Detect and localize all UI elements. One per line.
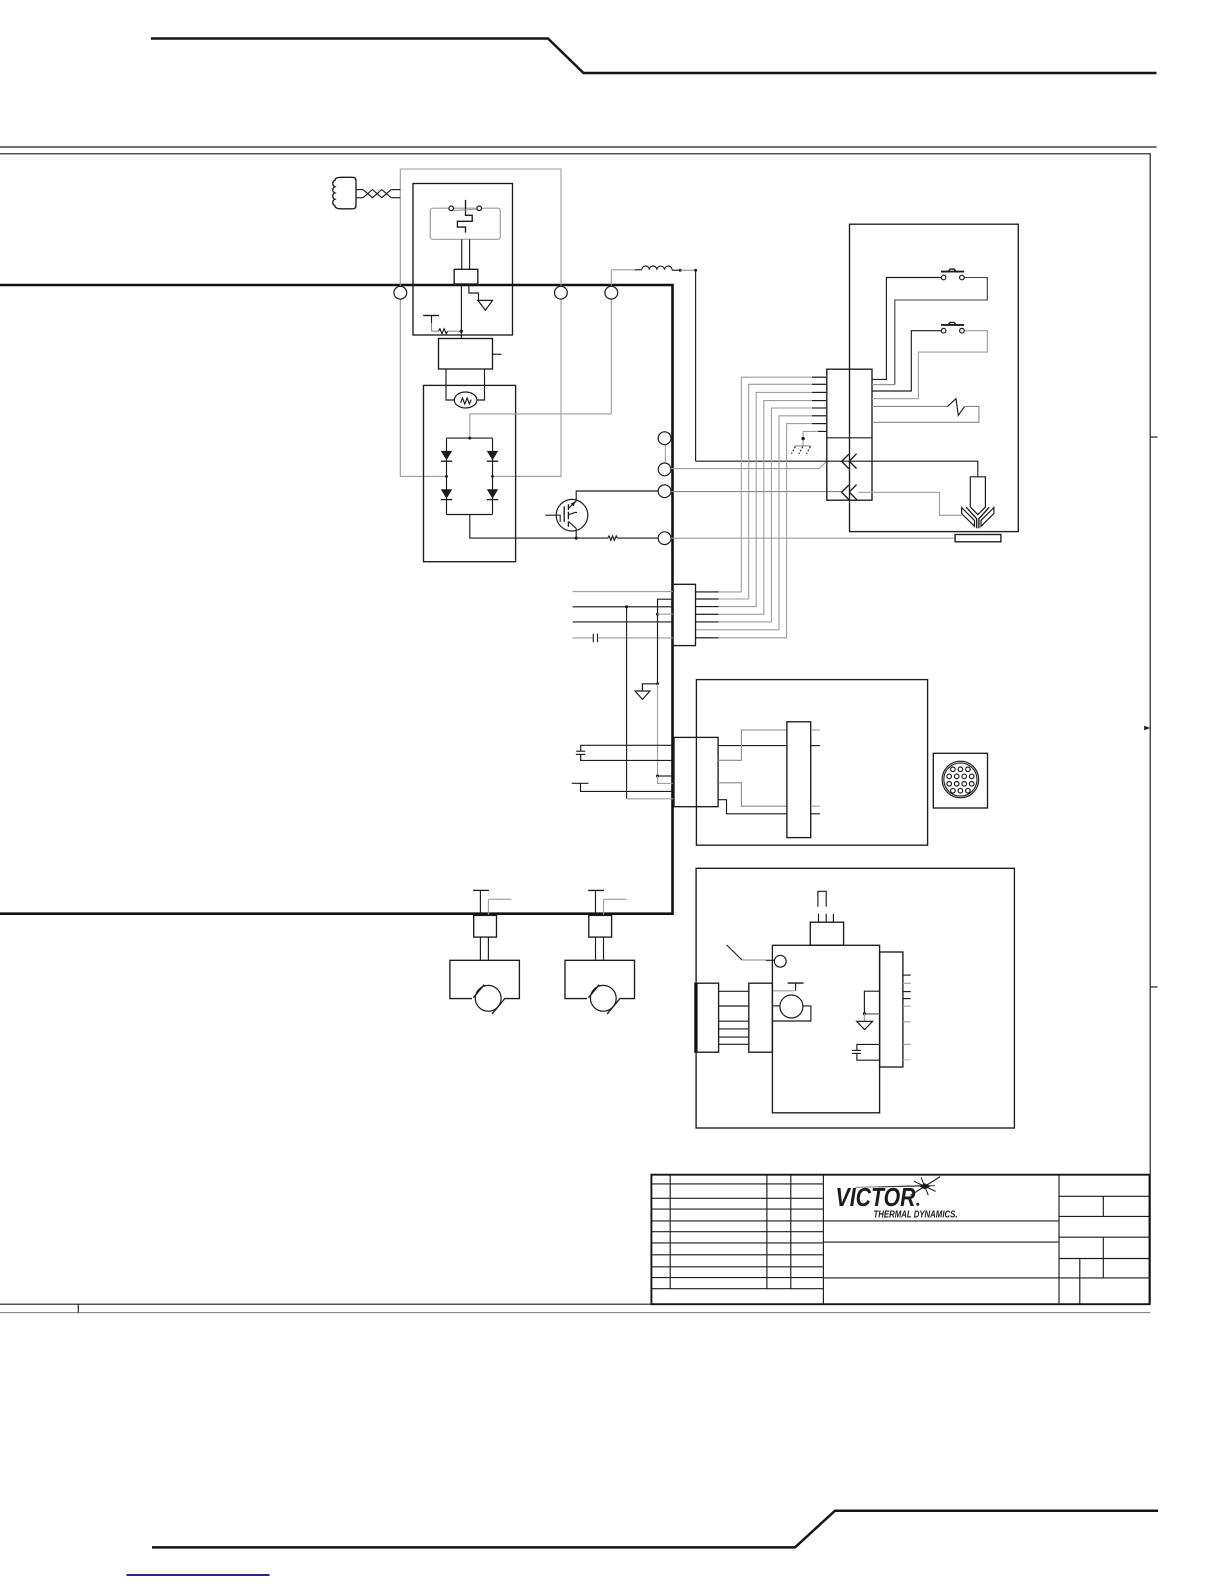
- torch connector block: [827, 369, 872, 500]
- rectifier box: [424, 385, 516, 561]
- drawing border bottom second line: [0, 1312, 1150, 1314]
- primary connector: [674, 737, 718, 806]
- pcb wire D with capacitor C1: [573, 634, 673, 643]
- harness stubs at connector: [696, 592, 719, 638]
- fan FN2: [565, 890, 635, 1014]
- harness wire 5: [696, 408, 827, 622]
- wire through node N3: [610, 270, 612, 414]
- bridge rectifier BR1: [441, 437, 498, 515]
- harness wire 7: [696, 424, 827, 638]
- diode D2: [487, 451, 498, 461]
- node N1: [394, 286, 407, 299]
- torch switch SW2: [872, 322, 987, 398]
- tip wire: [858, 492, 962, 515]
- Victor logo: [836, 1177, 958, 1221]
- CB1 blade: [454, 209, 477, 210]
- work lead: [671, 537, 955, 539]
- manifold pins: [903, 975, 911, 1060]
- solenoid ground: [857, 991, 880, 1029]
- bridge AC feed: [470, 414, 612, 438]
- electrode sense wire: [671, 491, 842, 494]
- pump motor M1: [772, 995, 811, 1021]
- bottom trim line: [152, 1511, 1158, 1548]
- control PCB box: [439, 339, 502, 370]
- harness black stubs at block: [812, 377, 827, 423]
- primary capacitor C2 loop: [576, 745, 674, 760]
- circuit breaker CB1 module box: [413, 184, 513, 336]
- aux ground wire: [642, 599, 672, 691]
- drawing border bottom line: [0, 1303, 1150, 1305]
- harness wire 6: [696, 416, 827, 630]
- solenoid coil connector: [818, 891, 834, 922]
- diode D1: [441, 451, 452, 461]
- port circle: [774, 955, 786, 967]
- wire CB1 to control PCB: [460, 284, 462, 339]
- leads PCB to lamp: [446, 369, 485, 400]
- gas solenoid body: [772, 945, 879, 1113]
- svg-text:VICTOR: VICTOR: [836, 1184, 916, 1212]
- aux wire to transformer: [656, 684, 673, 784]
- IGBT Q1: [545, 499, 588, 531]
- title right cells: [1059, 1175, 1150, 1305]
- border tick bottom left: [77, 1304, 79, 1312]
- gray jog to primary: [627, 798, 674, 800]
- pump stator: [695, 983, 772, 1052]
- title block outer frame: [651, 1175, 1149, 1305]
- harness wire 4: [696, 401, 827, 615]
- regulator tee: [772, 983, 803, 991]
- drawing border top line 1: [0, 146, 1157, 148]
- Q1 collector wire: [576, 491, 658, 501]
- pressure switch lever: [727, 945, 775, 960]
- torch switch SW1: [872, 269, 987, 385]
- gas control box: [696, 868, 1014, 1128]
- primary plate lead: [572, 783, 674, 791]
- quick disconnect chevrons pilot: [842, 454, 857, 469]
- low voltage connector block: [673, 584, 696, 645]
- pilot wire to torch: [696, 461, 978, 477]
- node N5: [658, 463, 671, 476]
- terminal block TB1: [454, 269, 478, 284]
- fan FN1: [450, 890, 520, 1014]
- border zone tick upper right: [1150, 436, 1157, 438]
- CNC connector J15: [933, 753, 987, 808]
- border zone tick lower right: [1150, 986, 1157, 988]
- CB1 toggle lever: [465, 200, 467, 214]
- primary to secondary wiring: [718, 730, 787, 814]
- harness wire 1: [696, 377, 827, 592]
- transformer box: [696, 680, 927, 846]
- torch tip: [962, 507, 994, 528]
- valve manifold: [880, 952, 903, 1067]
- Q1 emitter wire: [575, 528, 577, 538]
- CB1 contacts: [449, 206, 454, 211]
- pcb wire C: [573, 621, 673, 623]
- harness wire 3: [696, 392, 827, 606]
- torch electrode: [970, 477, 985, 515]
- chassis ground harness: [792, 431, 827, 453]
- revision table: [651, 1175, 823, 1305]
- bridge negative wire with shunt resistor R1: [470, 515, 658, 541]
- node N2: [555, 286, 568, 299]
- svg-text:THERMAL DYNAMICS.: THERMAL DYNAMICS.: [874, 1210, 958, 1221]
- solenoid terminal box: [810, 922, 843, 945]
- inductor L1: [635, 266, 682, 272]
- inductor feed wire: [611, 269, 635, 271]
- line cord plug P1: [333, 177, 356, 209]
- quick disconnect chevrons tip: [842, 485, 857, 500]
- node N4: [658, 432, 671, 445]
- logo star: [911, 1177, 941, 1196]
- drawing border top line 2 and right edge: [0, 154, 1150, 1304]
- pilot lamp DS1: [454, 392, 477, 408]
- title center cells: [823, 1221, 1059, 1278]
- diode D4: [487, 489, 498, 499]
- earth arrow lower: [635, 691, 650, 699]
- pcb wire B: [573, 605, 673, 608]
- node N7: [658, 532, 671, 545]
- node N3: [605, 286, 618, 299]
- node N6: [658, 485, 671, 498]
- spark gap: [872, 399, 979, 423]
- earth arrow from TB1: [469, 284, 493, 310]
- torch assembly box: [850, 224, 1019, 531]
- work clamp: [955, 535, 1001, 542]
- footer link underline: [127, 1574, 270, 1576]
- flexible conduit to input: [356, 190, 400, 198]
- thermal sensor and resistor: [423, 316, 463, 334]
- border zone arrow mid right: [1144, 726, 1150, 730]
- power supply enclosure: [0, 285, 673, 914]
- tip sense wire: [671, 461, 827, 468]
- top trim line: [151, 39, 1157, 74]
- harness wire 2: [696, 384, 827, 599]
- transformer secondary bar: [787, 722, 811, 838]
- secondary stubs: [811, 730, 820, 814]
- CB1 output leads: [462, 239, 470, 269]
- link N4 to N5: [664, 445, 666, 463]
- pcb wire A: [573, 591, 673, 593]
- pcb wire to transformer primary: [626, 607, 628, 799]
- pilot down wire: [695, 270, 697, 461]
- circuit breaker CB1 body: [430, 208, 500, 239]
- input module outline gray: [400, 169, 561, 476]
- HF lead outside enclosure: [680, 269, 697, 272]
- solenoid capacitor C3: [852, 1044, 879, 1060]
- CB1 trip mechanism: [457, 214, 472, 233]
- diode D3: [441, 489, 452, 499]
